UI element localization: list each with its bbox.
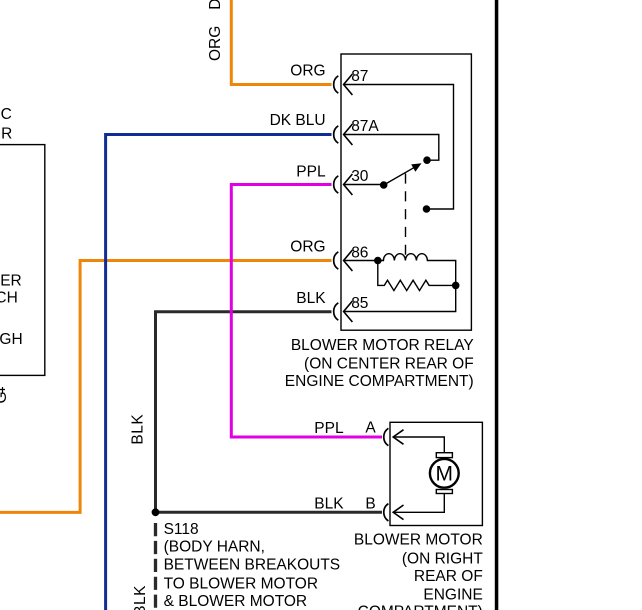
- coil node dot (pin 86): [374, 257, 382, 265]
- svg-text:PPL: PPL: [296, 164, 326, 181]
- relay internal wire pin 85 to coil node: [344, 285, 456, 311]
- left component box (partial, cut by left edge): [0, 145, 45, 376]
- svg-text:BLK: BLK: [296, 290, 326, 307]
- relay internal wire from pin 87 to lower switch contact: [344, 85, 454, 210]
- wire PPL (relay pin 30 to blower motor pin A): [231, 185, 382, 438]
- relay pin 86 arrow: [344, 250, 353, 271]
- motor circle: [430, 459, 459, 488]
- svg-text:C: C: [1, 106, 12, 123]
- svg-text:(BODY HARN,: (BODY HARN,: [164, 539, 265, 556]
- relay pin 87A connector arc: [334, 126, 339, 143]
- relay pin 87A arrow: [344, 124, 353, 145]
- svg-text:BLK: BLK: [314, 496, 344, 513]
- splice S118 junction dot: [152, 508, 160, 516]
- svg-text:ER: ER: [0, 272, 22, 289]
- switch arm (pivot toward 87A contact): [384, 167, 415, 185]
- svg-text:85: 85: [351, 295, 368, 312]
- relay pin 87 arrow: [344, 74, 353, 95]
- relay pin 30 arrow: [344, 174, 353, 195]
- svg-text:PPL: PPL: [314, 420, 344, 437]
- svg-text:B: B: [365, 496, 375, 513]
- switch pivot dot: [380, 181, 388, 189]
- svg-text:& BLOWER MOTOR: & BLOWER MOTOR: [164, 593, 308, 610]
- coil/resistor right node dot: [452, 282, 460, 290]
- svg-text:(ON RIGHT: (ON RIGHT: [402, 550, 483, 567]
- svg-text:R: R: [1, 126, 12, 143]
- svg-text:30: 30: [351, 168, 369, 185]
- svg-text:87: 87: [351, 68, 368, 85]
- relay coil winding: [344, 254, 456, 286]
- svg-text:G: G: [0, 391, 10, 403]
- svg-text:BETWEEN BREAKOUTS: BETWEEN BREAKOUTS: [164, 557, 341, 574]
- motor pin B connector arc: [384, 504, 389, 521]
- wire DK BLU (to relay pin 87A, exits bottom): [106, 135, 332, 610]
- svg-text:ORG: ORG: [207, 26, 224, 61]
- svg-text:BLK: BLK: [132, 585, 149, 610]
- svg-text:87A: 87A: [351, 118, 379, 135]
- svg-text:ORG: ORG: [290, 238, 325, 255]
- motor pin A arrow: [393, 430, 403, 445]
- upper switch contact dot: [423, 156, 431, 164]
- dashed actuator link: [405, 174, 407, 256]
- left rotated fragment tick: [0, 387, 5, 394]
- svg-text:86: 86: [351, 244, 368, 261]
- svg-text:(ON CENTER REAR OF: (ON CENTER REAR OF: [304, 355, 474, 372]
- wire BLK dashed (below splice S118): [154, 523, 157, 610]
- svg-text:M: M: [436, 463, 454, 486]
- motor pin A connector arc: [384, 428, 389, 445]
- svg-text:ORG: ORG: [290, 63, 325, 80]
- wire ORG (top, to relay pin 87): [231, 0, 331, 85]
- lower switch contact dot: [423, 205, 431, 213]
- resistor (parallel with coil): [378, 261, 456, 291]
- svg-text:COMPARTMENT): COMPARTMENT): [358, 604, 483, 610]
- svg-text:ENGINE: ENGINE: [423, 586, 482, 603]
- svg-text:GH: GH: [0, 331, 23, 348]
- motor brush block bottom: [436, 490, 452, 494]
- svg-text:DK BLU: DK BLU: [270, 112, 326, 129]
- switch arm arrowhead: [411, 163, 421, 171]
- svg-text:S118: S118: [164, 521, 199, 538]
- svg-text:A: A: [365, 420, 376, 437]
- relay pin 87 connector arc: [334, 76, 339, 93]
- motor brush block top: [436, 453, 452, 458]
- motor internal wire pin A to motor: [393, 437, 444, 453]
- relay internal wire pin 30 to switch pivot: [344, 184, 384, 186]
- svg-text:BLK: BLK: [129, 414, 146, 445]
- svg-text:REAR OF: REAR OF: [414, 568, 483, 585]
- relay pin 85 arrow: [344, 301, 353, 322]
- page border line (right): [495, 0, 499, 610]
- relay pin 30 connector arc: [334, 176, 339, 193]
- svg-text:D: D: [207, 0, 224, 10]
- motor pin B arrow: [393, 505, 403, 520]
- relay U1 box: BLOWER MOTOR RELAY: [341, 54, 471, 330]
- wire BLK (relay pin 85 to S118 to blower motor pin B): [156, 312, 383, 513]
- svg-text:TO BLOWER MOTOR: TO BLOWER MOTOR: [164, 575, 318, 592]
- relay pin 85 connector arc: [334, 303, 339, 320]
- relay internal wire from pin 87A to upper switch contact: [344, 135, 439, 161]
- wire ORG (lower, to relay pin 86, exits left): [0, 261, 332, 513]
- svg-text:BLOWER MOTOR: BLOWER MOTOR: [354, 531, 483, 548]
- motor internal wire pin B to motor: [393, 494, 444, 512]
- svg-text:CH: CH: [0, 289, 18, 306]
- blower motor M1 box: [390, 422, 482, 525]
- relay pin 86 connector arc: [334, 252, 339, 269]
- svg-text:BLOWER MOTOR RELAY: BLOWER MOTOR RELAY: [291, 337, 474, 354]
- svg-text:ENGINE COMPARTMENT): ENGINE COMPARTMENT): [285, 373, 474, 390]
